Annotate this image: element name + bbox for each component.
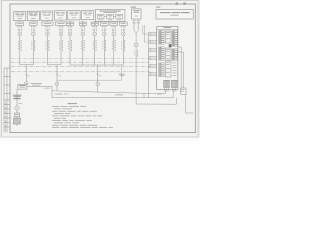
feeder drop wire 2 bbox=[56, 65, 61, 91]
label near collector end bbox=[119, 74, 126, 76]
small note text right bbox=[158, 90, 162, 95]
contactor KM2 (hatched) bbox=[171, 80, 177, 87]
incoming wire bundles to cabinet bbox=[149, 32, 157, 76]
indicator component inside cabinet bbox=[169, 44, 172, 47]
drop wire column 2 bbox=[31, 36, 35, 65]
drop wire column 10 bbox=[121, 36, 125, 65]
collector bracket group 1 (cols 1-2) bbox=[20, 64, 34, 66]
hatched earth electrode box bbox=[14, 117, 21, 124]
routing wire y104 bbox=[136, 98, 176, 104]
inline meter circle 1 bbox=[25, 82, 29, 86]
feeder line row y90.8 sloped bbox=[52, 91, 144, 98]
routing wire y93.3 bbox=[144, 90, 166, 93]
routing wire y97.5 bbox=[52, 90, 173, 98]
controller module K3 bbox=[165, 61, 171, 78]
inline meter circle 2 bbox=[55, 82, 59, 86]
drop wire column 1 bbox=[18, 36, 22, 65]
terminal box XT9 bbox=[110, 21, 118, 26]
control wire y80.2 bbox=[57, 65, 121, 80]
fan equipment box P1 bbox=[14, 11, 26, 20]
fan equipment box P3 bbox=[41, 11, 53, 20]
valve control box U1 bbox=[132, 9, 141, 19]
paper sheet bbox=[0, 0, 200, 141]
feeder drop wire 1 bbox=[25, 65, 30, 85]
terminal box XT5 bbox=[66, 21, 73, 26]
terminal ticks and wire triple for column 1 bbox=[17, 26, 22, 31]
terminal ticks and wire triple for column 10 bbox=[121, 26, 126, 31]
small device box right of cabinet bottom bbox=[180, 88, 186, 94]
motor circle M8 bbox=[102, 32, 106, 36]
junction box at ground bbox=[14, 113, 20, 117]
title note box: ventilation system designation bbox=[156, 10, 193, 20]
inline meter circle 3 bbox=[96, 82, 100, 86]
sheet number mark bbox=[131, 6, 161, 8]
terminal strip column XT-B (right) bbox=[172, 31, 177, 61]
contactor KM1 (hatched) bbox=[164, 80, 170, 87]
feeder drop wire 3 bbox=[97, 65, 102, 92]
fan equipment box P6 bbox=[82, 10, 94, 19]
aux text right column lower bbox=[172, 63, 176, 76]
drop wire column 4 bbox=[59, 36, 63, 65]
terminal box XT7 bbox=[91, 21, 98, 26]
left margin stamp strip bbox=[4, 68, 10, 133]
valve drop wires to damper actuator bbox=[134, 24, 138, 43]
drop wire column 3 bbox=[46, 36, 50, 65]
dash-dot boundary line 4 bbox=[11, 71, 150, 73]
damper actuator circle bbox=[134, 43, 138, 47]
revision marks bbox=[176, 2, 186, 5]
cabinet bottom terminal ticks bbox=[164, 87, 177, 91]
vertical link x186.5 bbox=[186, 94, 194, 113]
terminal strip column XT-A (left) bbox=[159, 31, 164, 77]
motor circle M3 bbox=[46, 32, 50, 36]
controller module K1 bbox=[165, 31, 171, 43]
terminal box XT2 bbox=[29, 21, 37, 26]
terminal box XT3 bbox=[42, 21, 53, 26]
tick label on riser bbox=[19, 102, 22, 105]
terminal ticks and wire triple for column 8 bbox=[102, 26, 107, 31]
label above routing line y97.5 bbox=[55, 93, 69, 96]
label ShchUV on wire bbox=[115, 94, 123, 97]
inner border frame bbox=[10, 4, 195, 133]
drop wire column 9 bbox=[112, 36, 116, 65]
motor circle M9 bbox=[112, 32, 116, 36]
cable tag on actuator wire bbox=[134, 51, 138, 57]
motor circle M10 bbox=[121, 32, 125, 36]
stub below earth box bbox=[16, 124, 18, 126]
motor circle M4 bbox=[59, 32, 63, 36]
wire below meter bbox=[16, 110, 18, 113]
notes block: Primechaniya bbox=[52, 103, 113, 128]
automation cabinet block A1 outline bbox=[157, 27, 178, 90]
cabinet header strip bbox=[157, 27, 178, 30]
motor circle M7 bbox=[93, 32, 97, 36]
motor circle M5 bbox=[68, 32, 72, 36]
terminal box XT6 bbox=[79, 21, 86, 26]
wires right of cabinet bbox=[178, 47, 184, 88]
fan equipment box P4 bbox=[54, 11, 66, 20]
feeder line A from box bbox=[27, 85, 52, 87]
motor circle M1 bbox=[18, 32, 22, 36]
drop wire column 5 bbox=[68, 36, 72, 65]
drop wire column 7 bbox=[93, 36, 97, 65]
terminal ticks and wire triple for column 3 bbox=[45, 26, 50, 31]
drop wire column 8 bbox=[102, 36, 106, 65]
terminal ticks and wire triple for column 2 bbox=[31, 26, 36, 31]
terminal box XT10 bbox=[119, 21, 127, 26]
collector bracket group 3 (cols 5-9) bbox=[70, 64, 123, 66]
VRU label cluster bbox=[13, 95, 22, 99]
motor circle M6 bbox=[81, 32, 85, 36]
controller module K2 bbox=[165, 48, 171, 59]
dash-dot boundary line 2 bbox=[11, 61, 150, 63]
fan equipment box P2 bbox=[27, 11, 39, 20]
wire from actuator down to routing run bbox=[135, 47, 137, 104]
terminal ticks and wire triple for column 5 bbox=[67, 26, 72, 31]
roof exhaust unit box P7 with dampers bbox=[95, 9, 125, 21]
dash-dot boundary line 3 bbox=[11, 66, 150, 68]
cable label above feeder line A bbox=[31, 83, 43, 85]
label above feeder y90.8 left bbox=[45, 87, 51, 90]
motor circle M2 bbox=[31, 32, 35, 36]
meter circle PI1 bbox=[15, 106, 19, 110]
terminal ticks and wire triple for column 6 bbox=[80, 26, 85, 31]
ground riser wire bbox=[16, 89, 18, 106]
drop wire column 6 bbox=[81, 36, 85, 65]
signal risers into cabinet bbox=[143, 25, 149, 42]
fan equipment box P5 bbox=[68, 11, 80, 20]
distribution box ShchO bbox=[18, 84, 27, 89]
terminal ticks under valve box bbox=[133, 20, 140, 23]
terminal box XT8 bbox=[100, 21, 108, 26]
collector bracket group 2 (cols 3-4) bbox=[48, 64, 62, 66]
riser wire feeding bundles bbox=[148, 33, 150, 98]
terminal box XT1 bbox=[16, 21, 24, 26]
terminal box XT4 bbox=[55, 21, 66, 26]
terminal ticks and wire triple for column 7 bbox=[92, 26, 97, 31]
feeder line B elbow down bbox=[51, 86, 53, 97]
terminal ticks and wire triple for column 9 bbox=[111, 26, 116, 31]
dash-dot boundary line 1 bbox=[11, 57, 150, 59]
terminal ticks and wire triple for column 4 bbox=[58, 26, 63, 31]
